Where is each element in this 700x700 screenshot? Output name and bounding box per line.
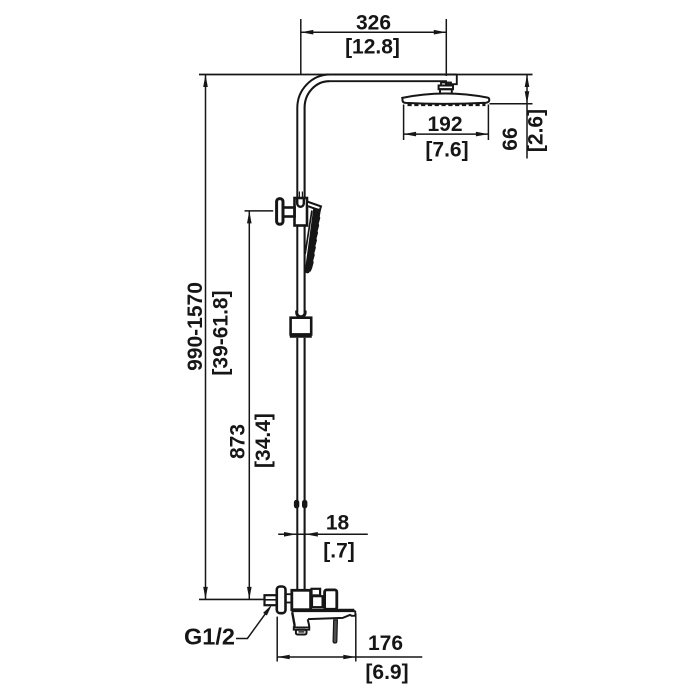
hand shower holder knob: [277, 199, 283, 225]
dimension 66 vertical line: [526, 75, 528, 159]
union bumps on pipe: [294, 500, 299, 509]
hand shower holder slider block: [295, 198, 308, 226]
top reference line: [199, 74, 533, 76]
wire: 326 right extension line: [445, 19, 447, 76]
svg-text:192: 192: [427, 113, 462, 136]
dimension line 176: [277, 656, 422, 658]
svg-text:[34.4]: [34.4]: [252, 413, 275, 468]
head connector nut stack: [441, 83, 451, 86]
svg-text:G1/2: G1/2: [184, 624, 235, 650]
mixer wall plate: [277, 587, 286, 614]
spout aerator flange: [294, 627, 310, 629]
shower arm top edge: [330, 74, 457, 76]
wire: 326 left extension line: [300, 19, 302, 75]
dimension line 192: [404, 133, 489, 135]
svg-text:[6.9]: [6.9]: [365, 661, 408, 684]
dimension 66 extension line: [490, 103, 533, 105]
dimension 176 extension lines: [276, 617, 278, 662]
dimension 873 vertical line: [248, 211, 250, 600]
svg-text:[12.8]: [12.8]: [345, 36, 400, 59]
spout funnel: [292, 612, 294, 627]
spout deck bar right end hook: [350, 611, 355, 616]
dimension line 18: [278, 533, 368, 535]
svg-text:326: 326: [356, 12, 391, 35]
dimension 192 extension lines: [403, 105, 405, 141]
hose inner lines above holder: [298, 192, 300, 199]
svg-text:873: 873: [227, 424, 250, 459]
rain shower head: [402, 94, 489, 104]
shower riser pipe upper segment left edge: [297, 75, 330, 199]
shower riser pipe lower segment: [296, 338, 298, 591]
spout arm underside: [308, 615, 351, 619]
hand shower white stripe edge: [305, 211, 312, 255]
svg-text:66: 66: [499, 127, 522, 150]
hand shower handle: [305, 207, 321, 272]
svg-text:176: 176: [368, 632, 403, 655]
shower riser pipe upper segment right edge: [305, 81, 330, 198]
mixer lever handle: [325, 590, 337, 609]
bottom baseline of vertical dimensions: [199, 598, 264, 600]
svg-text:[2.6]: [2.6]: [525, 109, 548, 152]
G1/2 leader line: [236, 613, 266, 638]
hose inlet U: [297, 199, 304, 207]
plate-body connector: [286, 594, 293, 602]
head nozzle dashes: [408, 104, 486, 107]
spout aerator cup: [296, 630, 307, 635]
dimension line 326: [301, 31, 447, 33]
G1/2 inlet nipple: [265, 595, 277, 605]
spout deck bar: [292, 609, 355, 612]
mixer body: [292, 590, 311, 609]
shower riser pipe middle segment: [296, 226, 298, 312]
dimension 873 extension line: [245, 210, 274, 212]
svg-text:[.7]: [.7]: [323, 540, 355, 563]
cartridge boxes: [312, 589, 321, 596]
height adjust coupling: [297, 311, 305, 317]
shower arm bottom edge and end cap: [330, 75, 457, 85]
svg-text:[7.6]: [7.6]: [425, 139, 468, 162]
diverter rod: [333, 620, 337, 643]
dimension 990-1570 vertical line: [205, 75, 207, 600]
svg-text:[39-61.8]: [39-61.8]: [210, 290, 233, 375]
svg-text:990-1570: 990-1570: [184, 282, 207, 371]
hand shower head: [307, 202, 321, 211]
svg-text:18: 18: [326, 512, 350, 535]
